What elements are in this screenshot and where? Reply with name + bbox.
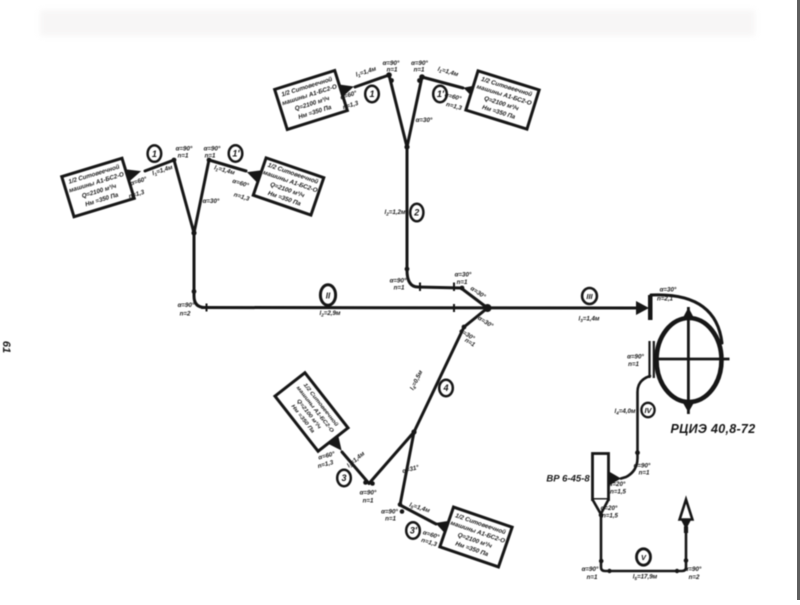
svg-text:α=90°: α=90° — [685, 566, 702, 573]
svg-text:l5=17,9м: l5=17,9м — [633, 574, 658, 581]
svg-text:n=2,1: n=2,1 — [657, 296, 674, 303]
svg-text:l2=1,2м: l2=1,2м — [384, 209, 405, 216]
svg-text:l5=1,4м: l5=1,4м — [408, 502, 431, 515]
svg-text:n=2: n=2 — [180, 311, 191, 318]
svg-text:3': 3' — [410, 526, 418, 536]
svg-text:l4=4,0м: l4=4,0м — [614, 408, 635, 415]
svg-text:n=1: n=1 — [363, 498, 374, 505]
svg-text:n=1: n=1 — [394, 285, 405, 292]
svg-text:α=31°: α=31° — [402, 464, 421, 475]
svg-text:α=30°: α=30° — [469, 285, 487, 300]
svg-text:α=30°: α=30° — [416, 117, 433, 124]
svg-text:n=1: n=1 — [387, 67, 398, 74]
svg-text:α=90°: α=90° — [204, 146, 221, 153]
svg-text:n=1: n=1 — [587, 574, 598, 581]
svg-text:α=90°: α=90° — [582, 566, 599, 573]
svg-text:III: III — [586, 292, 593, 301]
svg-text:n=1: n=1 — [385, 516, 396, 523]
svg-text:3: 3 — [341, 473, 346, 483]
svg-text:IV: IV — [644, 406, 652, 415]
svg-text:n=1,3: n=1,3 — [233, 191, 251, 203]
svg-text:l1=1,4м: l1=1,4м — [355, 65, 378, 79]
svg-text:α=30°: α=30° — [476, 315, 494, 330]
svg-text:l1=1,4м: l1=1,4м — [437, 66, 460, 79]
svg-text:α=90°: α=90° — [176, 146, 193, 153]
svg-text:α=30°: α=30° — [455, 272, 472, 279]
svg-text:2: 2 — [413, 208, 419, 218]
svg-text:n=1,3: n=1,3 — [445, 101, 463, 112]
svg-text:α=60°: α=60° — [231, 178, 250, 190]
svg-text:α=30°: α=30° — [660, 287, 677, 294]
svg-text:α=90°: α=90° — [627, 354, 644, 361]
svg-text:n=1: n=1 — [628, 361, 639, 368]
svg-text:n=1: n=1 — [414, 67, 425, 74]
svg-text:l3=1,4м: l3=1,4м — [578, 316, 599, 323]
svg-text:61: 61 — [0, 341, 12, 353]
svg-text:1: 1 — [369, 89, 374, 99]
svg-text:α=30°: α=30° — [203, 198, 220, 205]
svg-text:n=1: n=1 — [639, 470, 650, 477]
svg-text:РЦИЭ 40,8-72: РЦИЭ 40,8-72 — [671, 422, 756, 436]
svg-text:l4=0,5м: l4=0,5м — [409, 369, 425, 391]
svg-text:4: 4 — [442, 383, 448, 393]
svg-text:ВР 6-45-8: ВР 6-45-8 — [546, 474, 590, 485]
svg-text:α=90°: α=90° — [360, 490, 377, 497]
svg-text:α=20°: α=20° — [601, 505, 618, 512]
svg-text:II: II — [326, 292, 331, 301]
svg-text:α=90°: α=90° — [381, 509, 398, 516]
svg-text:α=20°: α=20° — [609, 481, 626, 488]
svg-text:n=1,5: n=1,5 — [602, 513, 619, 520]
svg-text:1': 1' — [232, 149, 240, 159]
svg-text:n=1: n=1 — [178, 153, 189, 160]
svg-text:n=1,5: n=1,5 — [610, 489, 627, 496]
svg-text:α=90°: α=90° — [634, 463, 651, 470]
svg-text:l2=2,9м: l2=2,9м — [319, 310, 340, 317]
svg-text:α=90°: α=90° — [390, 278, 407, 285]
svg-text:n=1: n=1 — [457, 279, 468, 286]
svg-text:1: 1 — [152, 149, 157, 159]
svg-text:n=1: n=1 — [205, 153, 216, 160]
svg-text:n=1: n=1 — [463, 337, 476, 349]
svg-text:α=90°: α=90° — [178, 302, 195, 309]
svg-text:n=2: n=2 — [689, 574, 700, 581]
